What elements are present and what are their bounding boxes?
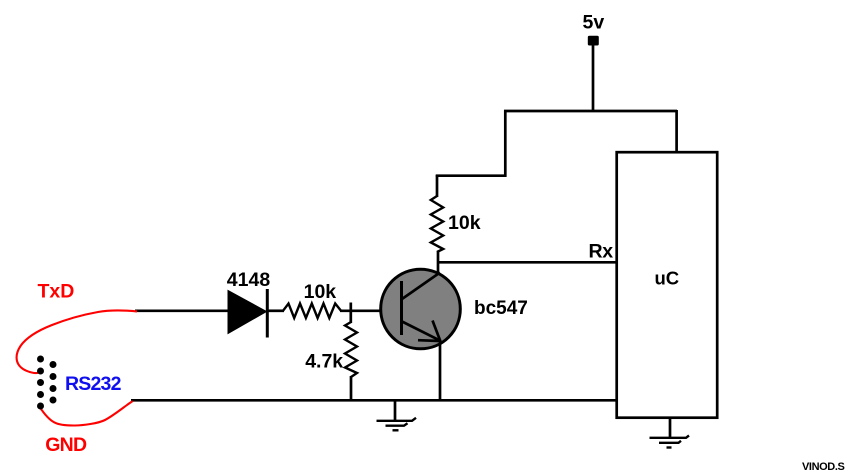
ground symbol G2 bar 3 [667, 446, 672, 448]
connector pin dot L2 [37, 368, 44, 375]
svg-text:TxD: TxD [38, 281, 75, 303]
transistor Q1 bc547 body [381, 269, 461, 349]
transistor Q1 collector stroke [402, 273, 440, 300]
ground symbol G1 stem [394, 400, 397, 421]
IC uC box [617, 152, 718, 418]
svg-text:10k: 10k [448, 212, 481, 234]
connector pin dot L4 [37, 391, 44, 398]
transistor Q1 emitter stroke [402, 322, 441, 341]
diode D1 cathode bar [266, 289, 269, 338]
resistor R3 4.7k [345, 322, 357, 377]
svg-text:VINOD.S: VINOD.S [802, 461, 844, 471]
connector pin dot R4 [50, 397, 57, 404]
wire Rx horizontal [437, 261, 617, 264]
resistor R1 10k (collector pull-up) [431, 196, 443, 252]
ground symbol G1 bar 2 [386, 423, 408, 425]
wire TxD input [135, 309, 230, 312]
wire bottom ground rail [131, 399, 617, 402]
wire R3 top stub / junction nub [349, 303, 352, 324]
ground symbol G2 stem (uC) [669, 417, 672, 438]
power terminal 5v [588, 36, 599, 46]
ground symbol G1 bar 3 [393, 429, 399, 431]
transistor Q1 emitter arrow barb lower [418, 339, 441, 342]
wire 5v stem [592, 45, 595, 112]
svg-text:uC: uC [655, 267, 680, 288]
ground symbol G1 bar 1 [377, 418, 417, 421]
wire top horizontal rail [504, 110, 677, 113]
wire R2 to base [340, 309, 402, 312]
wire left drop [504, 110, 507, 177]
connector pin dot L5 [37, 403, 44, 410]
connector pin dot R3 [50, 385, 57, 392]
wire right drop to uC [675, 110, 678, 153]
transistor Q1 base bar [400, 281, 403, 335]
transistor Q1 emitter arrow barb upper [433, 321, 441, 342]
connector pin dot R1 [50, 361, 57, 368]
svg-text:RS232: RS232 [65, 373, 122, 395]
diode D1 4148 triangle [228, 291, 267, 334]
svg-text:GND: GND [45, 434, 87, 456]
wire R1 bottom stub / collector junction [437, 251, 440, 277]
svg-text:5v: 5v [583, 11, 605, 33]
ground symbol G2 bar 1 [650, 436, 690, 438]
wire R3 bottom stub [350, 376, 353, 401]
svg-text:bc547: bc547 [474, 298, 528, 319]
resistor R2 10k (series base) [283, 304, 341, 319]
wire horizontal to R1 [436, 174, 507, 177]
svg-text:10k: 10k [304, 281, 337, 303]
wire red GND loop (hand drawn) [40, 401, 133, 426]
svg-text:Rx: Rx [589, 241, 614, 263]
connector pin dot R2 [50, 373, 57, 380]
wire red TxD loop (hand drawn) [17, 310, 137, 373]
svg-text:4148: 4148 [227, 269, 271, 291]
wire diode to R2 [268, 309, 284, 312]
ground symbol G2 bar 2 [659, 441, 681, 443]
connector pin dot L1 [37, 356, 44, 363]
wire emitter to ground rail [439, 341, 442, 401]
svg-text:4.7k: 4.7k [305, 351, 343, 373]
connector pin dot L3 [37, 379, 44, 386]
wire R1 top stub [436, 175, 439, 197]
